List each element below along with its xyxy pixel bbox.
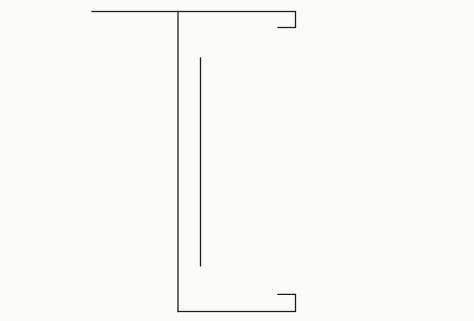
wire long vertical from R2 node to bottom rail [177, 12, 179, 312]
wire vertical DA1 pin3 to DA2 pin3 [200, 58, 202, 266]
wire top +U rail [92, 12, 296, 28]
wire bottom rail to DA2 pin16 [178, 294, 296, 311]
